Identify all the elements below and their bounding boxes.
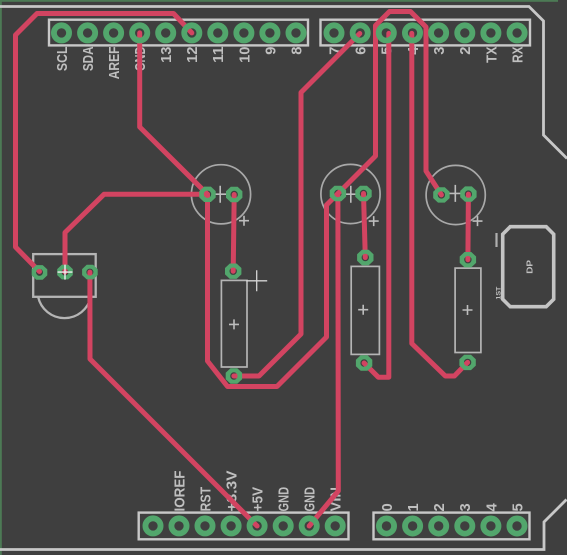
svg-text:AREF: AREF: [106, 47, 123, 80]
pad R1 bottom: [226, 368, 242, 383]
pad 12 (top-left header): [184, 25, 199, 40]
svg-text:2: 2: [431, 503, 448, 511]
wire: Q1 middle pad to C1 left pad: [65, 194, 208, 272]
svg-text:GND: GND: [276, 487, 293, 512]
pad 7 (top-right header): [326, 25, 341, 40]
svg-text:3: 3: [431, 47, 448, 55]
svg-text:10: 10: [236, 47, 253, 63]
pad 8 (top-left header): [288, 25, 303, 40]
svg-text:+5V: +5V: [250, 487, 267, 512]
wire: pad12 to Q1 left pad: [16, 14, 192, 272]
svg-text:5: 5: [509, 503, 526, 511]
pad Q1 pin 2: [57, 265, 73, 280]
pad 9 (top-left header): [262, 25, 277, 40]
pad TX (top-right header): [483, 25, 498, 40]
header box JP3 bottom-left: [139, 513, 349, 540]
pad A0 (bottom-right header): [379, 518, 394, 533]
pad SDA (top-left header): [80, 25, 95, 40]
wire: C2 left pad to GND2 pad: [309, 194, 338, 527]
svg-text:6: 6: [353, 47, 370, 55]
pad GND (top-left header): [132, 25, 147, 40]
silkscreen DP pin bar: [495, 233, 497, 247]
svg-text:11: 11: [210, 47, 227, 63]
header box JP4 bottom-right: [374, 513, 530, 540]
pad C1 negative: [199, 187, 215, 202]
pad 10 (top-left header): [236, 25, 251, 40]
svg-text:RST: RST: [197, 487, 214, 512]
svg-text:DP: DP: [526, 260, 535, 274]
svg-text:GND: GND: [302, 487, 319, 512]
wire: C1 right pad to R1 top pad: [233, 195, 234, 272]
silkscreen C3 plus mark: [447, 185, 464, 202]
silkscreen C3 origin plus: [473, 216, 483, 226]
pad 6 (top-right header): [353, 25, 368, 40]
pad C3 positive: [460, 186, 476, 201]
svg-text:IOREF: IOREF: [171, 471, 188, 512]
pad A4 (bottom-right header): [483, 518, 498, 533]
silkscreen capacitor C1 circle: [191, 165, 250, 224]
svg-text:3: 3: [457, 503, 474, 511]
silkscreen C2 origin plus: [369, 216, 379, 226]
canvas edge strip left: [0, 0, 2, 555]
pad R3 top: [460, 252, 476, 267]
pad R2 bottom: [356, 355, 372, 370]
silkscreen R1 plus mark: [229, 319, 239, 329]
wire: header pad 4 to R3 bottom pad: [412, 33, 468, 376]
silkscreen R2 plus mark: [358, 305, 368, 315]
svg-text:SCL: SCL: [54, 47, 71, 72]
R1 origin cross: [246, 270, 267, 291]
svg-text:8: 8: [288, 47, 305, 55]
pad 4 (top-right header): [405, 25, 420, 40]
pad SCL (top-left header): [54, 25, 69, 40]
silkscreen C1 plus mark: [212, 186, 229, 203]
pad +5V (bottom-left header): [250, 518, 265, 533]
svg-text:RX: RX: [510, 47, 527, 63]
pad 2 (top-right header): [457, 25, 472, 40]
pad R3 bottom: [459, 355, 475, 370]
pad C1 positive: [226, 187, 242, 202]
pad 5 (top-right header): [379, 25, 394, 40]
wire: header pad 5 to R2 bottom pad: [364, 33, 389, 377]
silkscreen Q1 arc: [38, 297, 91, 318]
silkscreen C2 plus mark: [342, 186, 359, 203]
silkscreen resistor R3 body: [455, 268, 481, 352]
pad VIN (bottom-left header): [328, 518, 343, 533]
wire: GND pad to C1 left pad: [140, 33, 208, 194]
header box JP1 top-left: [49, 20, 308, 46]
silkscreen R3 plus mark: [463, 305, 473, 315]
pad A2 (bottom-right header): [431, 518, 446, 533]
wire: R1 bottom pad to header pad 6: [234, 34, 360, 377]
svg-text:12: 12: [184, 47, 201, 63]
canvas edge strip top: [0, 0, 558, 2]
pad 3 (top-right header): [431, 25, 446, 40]
pad Q1 pin 3: [82, 265, 98, 280]
silkscreen resistor R1 body: [221, 280, 247, 367]
pad C2 positive: [355, 186, 371, 201]
svg-text:1ST: 1ST: [496, 286, 502, 299]
svg-text:0: 0: [379, 503, 396, 511]
wire: C1 left pad around R1 to C2 left pad and over header to C3 left pad: [208, 12, 442, 387]
pad C3 negative: [433, 187, 449, 202]
wire: C3 right pad to R3 top pad: [465, 194, 471, 260]
svg-text:4: 4: [483, 503, 500, 512]
silkscreen IC DP outline: [503, 227, 554, 307]
pad NC (bottom-left header): [145, 518, 160, 533]
wire: Q1 right pad to +5V pad: [90, 272, 257, 526]
pad 13 (top-left header): [158, 25, 173, 40]
pad GND2 (bottom-left header): [302, 518, 317, 533]
silkscreen resistor R2 body: [351, 266, 379, 354]
pad 11 (top-left header): [210, 25, 225, 40]
svg-text:TX: TX: [483, 47, 500, 63]
svg-text:13: 13: [158, 47, 175, 63]
pad R1 top: [225, 264, 241, 279]
header box JP2 top-right: [321, 20, 531, 46]
wire: C2 right pad to R2 top pad: [364, 194, 366, 258]
silkscreen C1 origin plus: [239, 216, 249, 226]
svg-text:SDA: SDA: [80, 46, 97, 71]
board outline bottom/right: [0, 500, 567, 550]
silkscreen capacitor C3 circle: [426, 165, 485, 224]
pad Q1 pin 1: [32, 265, 48, 280]
pad R2 top: [357, 250, 373, 265]
pad IOREF (bottom-left header): [171, 518, 186, 533]
svg-text:2: 2: [457, 47, 474, 55]
board outline top/right: [0, 7, 567, 159]
pad A1 (bottom-right header): [405, 518, 420, 533]
silkscreen capacitor C2 circle: [321, 164, 380, 223]
pad A5 (bottom-right header): [509, 518, 524, 533]
pad +3.3V (bottom-left header): [224, 518, 239, 533]
pad C2 negative: [330, 186, 346, 201]
pad A3 (bottom-right header): [457, 518, 472, 533]
svg-text:1: 1: [405, 503, 422, 511]
pad RST (bottom-left header): [197, 518, 212, 533]
pad RX (top-right header): [509, 25, 524, 40]
pad AREF (top-left header): [106, 25, 121, 40]
svg-text:9: 9: [262, 47, 279, 55]
pad GND (bottom-left header): [276, 518, 291, 533]
silkscreen transistor Q1 body: [33, 254, 95, 297]
Q1 origin crosshair: [58, 265, 73, 280]
